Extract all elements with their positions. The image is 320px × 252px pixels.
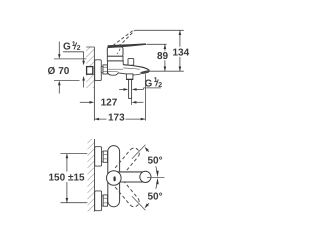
extension line x=145.4 (spout tip) [144, 74, 146, 120]
dimension 150 ±15 [48, 154, 87, 203]
dimension 89 [157, 44, 170, 71]
svg-text:127: 127 [101, 98, 118, 109]
dashed lever rotated down 50° [115, 180, 139, 206]
dimension 127 [80, 98, 144, 109]
rotated lever centerline ray down [132, 196, 146, 210]
diverter knob (on top of spout) [128, 59, 134, 66]
label G 1/2 (wall union) [63, 41, 85, 88]
rotated lever centerline ray up [132, 145, 146, 159]
bottom inlet escutcheon [95, 191, 102, 211]
lever hub circle [107, 171, 122, 186]
G1/2 pipe dimension arrows [119, 88, 143, 91]
wall (hatched) top view [86, 47, 94, 88]
bottom inlet neck [102, 196, 104, 206]
label G 1/2 (shower outlet) [144, 77, 163, 90]
swing arc up with arrows [145, 147, 159, 178]
svg-text:50°: 50° [148, 192, 163, 203]
lever swing dashed arc [117, 44, 120, 54]
label Ø 70 + extension lines [48, 42, 87, 94]
top inlet neck [102, 152, 104, 162]
swing arc down with arrows [145, 178, 159, 209]
svg-text:89: 89 [157, 51, 169, 62]
spout bottom curve [133, 74, 142, 75]
svg-text:Ø: Ø [48, 66, 56, 77]
wall (hatched) plan view [88, 139, 95, 212]
dashed lever rotated up 50° [115, 148, 139, 174]
hub slot (dark) [114, 176, 116, 181]
body capsule (plan view) [108, 146, 120, 207]
spout (top view) [123, 65, 149, 75]
dimension 134 [172, 30, 190, 71]
in-wall G1/2 thread [87, 67, 93, 75]
svg-text:50°: 50° [148, 156, 163, 167]
extension line y=30.3 (raised lever tip) [134, 29, 184, 31]
dimension 173 [94, 112, 145, 123]
extension of pipe edge x=131.6 [131, 95, 133, 105]
lever centerline [147, 176, 164, 178]
union neck [101, 67, 103, 73]
spout underside dark [140, 70, 149, 73]
svg-text:2: 2 [77, 45, 81, 52]
top inlet nut [103, 151, 107, 162]
union nut [103, 65, 107, 74]
top inlet escutcheon [95, 147, 102, 166]
extension line y=44.3 (lever top) [146, 43, 166, 45]
raised lever (dashed) [113, 30, 135, 47]
svg-text:134: 134 [173, 48, 190, 59]
shower outlet thread collar [126, 74, 133, 80]
shower outlet pipe G1/2 [129, 80, 132, 99]
svg-text:G: G [63, 42, 71, 53]
svg-text:70: 70 [58, 66, 70, 77]
lever handle (rest position) [108, 43, 146, 48]
bottom inlet nut [103, 195, 107, 206]
svg-text:173: 173 [108, 112, 125, 123]
body (top view) [108, 61, 146, 75]
step after nut [107, 66, 109, 73]
svg-text:150 ±15: 150 ±15 [49, 172, 86, 183]
extension line y=71.2 (spout bottom) [147, 70, 184, 72]
wall surface / extension line x=94.4 [93, 47, 95, 121]
lever (plan view) [114, 171, 151, 182]
cartridge dome [107, 47, 123, 61]
escutcheon (top view) [95, 60, 102, 81]
